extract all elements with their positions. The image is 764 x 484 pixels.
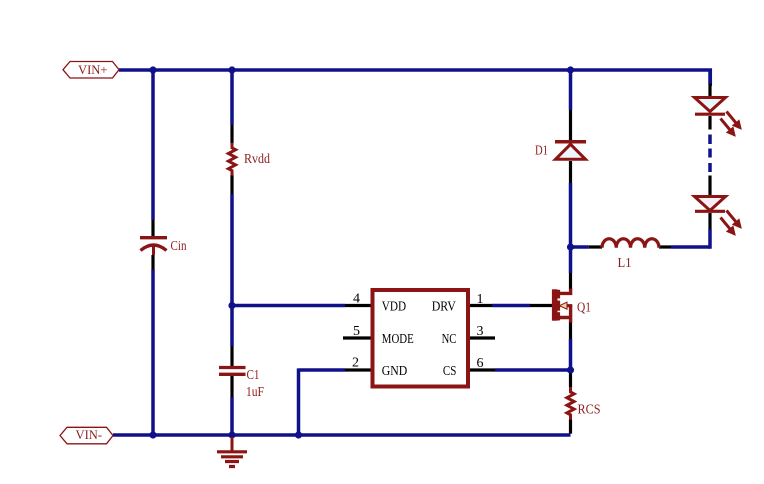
svg-text:D1: D1 [535,144,548,159]
svg-text:MODE: MODE [382,332,414,347]
svg-text:GND: GND [382,364,408,379]
svg-text:Cin: Cin [171,239,187,254]
svg-text:VIN-: VIN- [76,427,103,442]
svg-text:1uF: 1uF [246,385,264,400]
svg-text:Rvdd: Rvdd [244,152,270,167]
svg-text:6: 6 [477,356,484,371]
svg-text:VIN+: VIN+ [78,62,108,77]
svg-text:NC: NC [442,332,457,347]
svg-text:DRV: DRV [432,299,456,314]
svg-text:5: 5 [353,324,360,339]
svg-text:C1: C1 [247,368,260,383]
svg-text:3: 3 [477,324,484,339]
svg-text:VDD: VDD [382,299,406,314]
svg-text:2: 2 [352,356,359,371]
svg-text:1: 1 [477,292,484,307]
svg-text:Q1: Q1 [577,301,591,316]
svg-text:CS: CS [443,364,457,379]
svg-text:4: 4 [353,292,360,307]
svg-text:RCS: RCS [578,403,601,418]
svg-text:L1: L1 [618,256,632,271]
